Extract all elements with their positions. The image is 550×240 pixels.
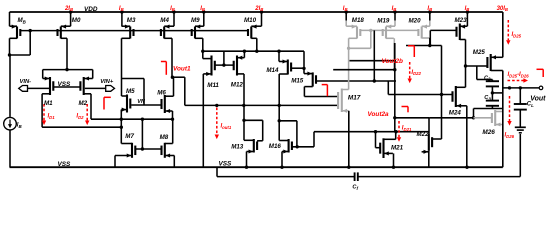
svg-text:M16: M16 [269, 143, 282, 150]
svg-text:VSS: VSS [219, 160, 233, 167]
svg-text:M21: M21 [391, 145, 404, 152]
svg-text:M11: M11 [207, 82, 219, 89]
svg-text:M4: M4 [160, 17, 169, 24]
svg-text:Vout2a: Vout2a [368, 111, 390, 118]
svg-text:VSS: VSS [58, 81, 72, 88]
svg-text:M7: M7 [125, 133, 134, 140]
svg-text:M0: M0 [72, 17, 81, 24]
svg-text:C2: C2 [484, 75, 491, 81]
svg-text:M22: M22 [417, 131, 430, 138]
svg-text:IB: IB [392, 6, 397, 12]
svg-text:M19: M19 [377, 17, 390, 24]
svg-text:Cf: Cf [352, 185, 358, 191]
svg-text:M6: M6 [157, 89, 166, 96]
svg-text:CL: CL [527, 102, 534, 108]
svg-text:ID1: ID1 [48, 114, 56, 120]
svg-text:IB: IB [170, 6, 175, 12]
svg-text:M25: M25 [473, 49, 486, 56]
svg-text:M23: M23 [455, 17, 468, 24]
svg-text:2IB: 2IB [64, 6, 73, 12]
svg-text:M20: M20 [409, 17, 422, 24]
svg-text:ID25-ID26: ID25-ID26 [508, 72, 530, 78]
svg-text:M26: M26 [482, 129, 495, 136]
svg-text:ID25: ID25 [512, 32, 522, 38]
svg-text:M14: M14 [266, 67, 279, 74]
svg-text:M3: M3 [127, 17, 136, 24]
svg-text:IB: IB [427, 6, 432, 12]
svg-text:M1: M1 [44, 100, 53, 107]
svg-text:VDD: VDD [84, 6, 98, 13]
svg-text:M24: M24 [449, 110, 462, 117]
svg-text:ID21: ID21 [402, 126, 412, 132]
svg-text:2IB: 2IB [254, 6, 263, 12]
svg-text:Vout2b: Vout2b [382, 58, 404, 65]
svg-text:VSS: VSS [58, 161, 72, 168]
svg-text:ID26: ID26 [505, 133, 515, 139]
svg-text:Vout1: Vout1 [173, 65, 191, 72]
svg-text:M17: M17 [348, 94, 361, 101]
svg-text:IB: IB [17, 123, 23, 129]
svg-text:30IB: 30IB [497, 6, 508, 12]
svg-text:ID22: ID22 [411, 70, 421, 76]
svg-text:M15: M15 [291, 77, 304, 84]
svg-text:VN: VN [137, 99, 146, 105]
svg-text:Vout: Vout [530, 95, 546, 102]
svg-text:M8: M8 [160, 134, 169, 141]
svg-text:VIN+: VIN+ [100, 79, 114, 85]
svg-text:M2: M2 [79, 100, 88, 107]
svg-text:IB: IB [119, 6, 124, 12]
svg-text:VIN-: VIN- [20, 79, 32, 85]
svg-text:M9: M9 [191, 17, 200, 24]
svg-text:IB: IB [465, 6, 470, 12]
svg-text:M10: M10 [244, 17, 257, 24]
svg-text:ID2: ID2 [76, 114, 84, 120]
svg-text:IB: IB [200, 6, 205, 12]
svg-text:IB: IB [343, 6, 348, 12]
svg-text:Iout1: Iout1 [221, 124, 232, 130]
svg-text:M18: M18 [352, 17, 365, 24]
svg-text:C3: C3 [484, 95, 491, 101]
svg-text:M5: M5 [126, 88, 135, 95]
svg-text:M13: M13 [231, 144, 244, 151]
svg-text:M12: M12 [231, 81, 244, 88]
